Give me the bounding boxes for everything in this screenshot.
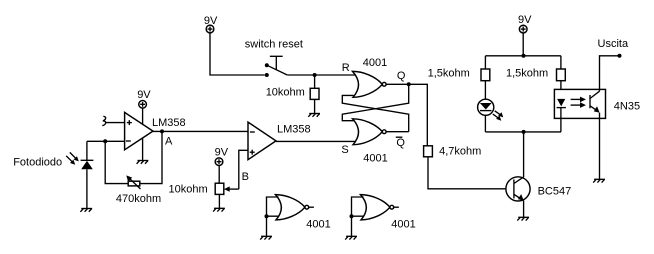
NOR gate U2D (unused right): [361, 195, 399, 220]
label R: [342, 62, 350, 74]
label switch reset: [245, 38, 303, 50]
svg-text:10kohm: 10kohm: [266, 87, 305, 99]
resistor 1,5kohm right: [557, 69, 566, 81]
wires U2C tied inputs: [265, 197, 279, 236]
wire Qbar output: [386, 131, 408, 133]
wire feedback left leg: [105, 141, 128, 183]
label LM358 U1B: [277, 123, 311, 135]
svg-text:Fotodiodo: Fotodiodo: [13, 156, 62, 168]
wire inverting input net: [87, 140, 125, 142]
svg-text:4001: 4001: [391, 218, 415, 230]
wire LED cathode down to rail: [484, 115, 486, 131]
wire rail to left resistor: [484, 56, 486, 69]
optocoupler 4N35 box: [554, 89, 605, 118]
label 1,5kohm left: [428, 67, 470, 79]
svg-text:1,5kohm: 1,5kohm: [428, 67, 470, 79]
wire BC547 emitter to ground: [523, 201, 525, 218]
label 4001 U2D: [391, 218, 415, 230]
svg-text:4001: 4001: [363, 152, 387, 164]
wire photodiode anode down: [86, 169, 88, 208]
label BC547: [538, 185, 572, 197]
wire 9V rail: [485, 55, 561, 57]
node junction dot at op-amp U1A inverting input: [103, 139, 107, 143]
optocoupler coupling arrows: [571, 97, 586, 108]
label 470kohm: [116, 193, 161, 205]
svg-text:4001: 4001: [306, 218, 330, 230]
label LM358 U1A: [152, 117, 186, 129]
trimmer resistor 470kohm: [126, 175, 140, 189]
label Fotodiodo: [13, 156, 62, 168]
9V supply symbol switch: [204, 15, 218, 33]
squiggle no-connect on U1A non-inverting input: [102, 116, 105, 125]
wire U1B output to S input: [276, 140, 356, 142]
resistor 10kohm pulldown: [310, 88, 319, 99]
node LED rail junction dot: [522, 130, 526, 134]
svg-text:470kohm: 470kohm: [116, 193, 161, 205]
wire U1A ground pin: [142, 138, 144, 161]
wire optocoupler cathode to LED rail: [560, 108, 562, 132]
node Q junction dot: [407, 82, 411, 86]
svg-text:Q: Q: [396, 137, 405, 149]
wire BC547 collector up to LED rail: [523, 132, 525, 177]
label 4001 bottom gate: [363, 152, 387, 164]
ground 10kohm pot: [213, 208, 225, 211]
LED light arrows out: [493, 111, 504, 121]
label 4,7kohm: [439, 145, 481, 157]
wire 9V to switch: [210, 33, 265, 75]
label node A: [165, 136, 173, 148]
label Uscita: [598, 38, 629, 50]
wire Qbar feedback to U2A input: [342, 95, 408, 131]
ground 10kohm pulldown: [308, 114, 320, 117]
NOR gate U2A (top, R input): [353, 71, 387, 97]
ground photodiode: [80, 209, 92, 212]
wire Q feedback to U2B input: [342, 84, 408, 120]
label 4001 U2C: [306, 218, 330, 230]
svg-text:9V: 9V: [518, 14, 532, 26]
optocoupler phototransistor: [590, 91, 600, 113]
ground optocoupler emitter: [593, 179, 605, 182]
wire U1A non-inverting input: [106, 122, 125, 124]
wire Q output net: [386, 84, 427, 146]
svg-text:Q: Q: [397, 70, 406, 82]
svg-text:B: B: [242, 171, 249, 183]
label 10kohm pulldown: [266, 87, 305, 99]
NOR gate U2C (unused left): [276, 195, 314, 220]
svg-text:S: S: [341, 144, 348, 156]
wire photodiode cathode up to node: [86, 141, 88, 160]
svg-text:LM358: LM358: [277, 123, 311, 135]
optocoupler LED: [557, 99, 566, 108]
9V supply symbol U1A: [137, 89, 151, 124]
potentiometer 10kohm: [215, 183, 239, 194]
svg-text:4,7kohm: 4,7kohm: [439, 145, 481, 157]
wire feedback right leg to node A: [140, 131, 162, 183]
svg-text:9V: 9V: [215, 147, 229, 159]
svg-text:R: R: [342, 62, 350, 74]
resistor 4,7kohm: [424, 146, 433, 157]
svg-text:A: A: [165, 136, 173, 148]
resistor 1,5kohm left: [481, 69, 490, 81]
label Qbar: [396, 137, 406, 149]
label 4001 top gate: [363, 57, 387, 69]
9V supply symbol for 10kohm pot: [215, 147, 229, 184]
svg-text:switch reset: switch reset: [245, 38, 303, 50]
label Q: [397, 70, 406, 82]
transistor Q1 BC547: [506, 177, 530, 201]
wire switch to R input: [287, 74, 356, 76]
svg-text:Uscita: Uscita: [598, 38, 629, 50]
wire optocoupler collector to Uscita: [600, 56, 620, 91]
9V supply symbol right: [518, 14, 532, 56]
photodiode D1: [81, 160, 94, 169]
node A junction dot: [160, 129, 164, 133]
NOR gate U2B (bottom, S input): [353, 119, 387, 145]
op-amp U1A LM358: [125, 112, 153, 149]
op-amp U1B LM358: [248, 122, 276, 160]
svg-text:4001: 4001: [363, 57, 387, 69]
light arrows into photodiode: [66, 152, 79, 164]
wire pot wiper to U1B non-inverting input (node B net): [239, 150, 248, 189]
wire rail to right resistor: [560, 56, 562, 69]
wire pot ground leg: [218, 194, 220, 208]
wire resistor to ground: [314, 99, 316, 113]
wire resistor to optocoupler anode: [560, 81, 562, 99]
svg-text:1,5kohm: 1,5kohm: [506, 67, 548, 79]
wire optocoupler emitter to ground: [599, 113, 601, 180]
ground BC547: [517, 217, 529, 220]
LED D2 indicator: [478, 99, 494, 115]
node junction dot 10kohm pulldown: [313, 73, 317, 77]
wire U1A output to U1B inverting input (node A net): [153, 130, 248, 132]
svg-text:BC547: BC547: [538, 185, 572, 197]
wire resistor to LED: [484, 81, 486, 100]
svg-text:9V: 9V: [137, 89, 151, 101]
ground U2C: [260, 236, 272, 239]
label 1,5kohm right: [506, 67, 548, 79]
wire junction to resistor: [314, 75, 316, 88]
wire 4,7kohm to BC547 base: [428, 157, 514, 189]
ground U1A: [137, 161, 149, 164]
wire LED cathode rail: [485, 131, 561, 133]
label 10kohm pot: [169, 184, 208, 196]
wires U2D tied inputs: [350, 197, 364, 236]
pushbutton switch reset: [265, 56, 288, 77]
svg-text:4N35: 4N35: [614, 101, 640, 113]
label node B: [242, 171, 249, 183]
label S: [341, 144, 348, 156]
label 4N35: [614, 101, 640, 113]
svg-text:10kohm: 10kohm: [169, 184, 208, 196]
node Uscita terminal dot: [618, 54, 622, 58]
node 9V rail junction dot: [522, 54, 526, 58]
svg-text:LM358: LM358: [152, 117, 186, 129]
ground U2D: [345, 236, 357, 239]
